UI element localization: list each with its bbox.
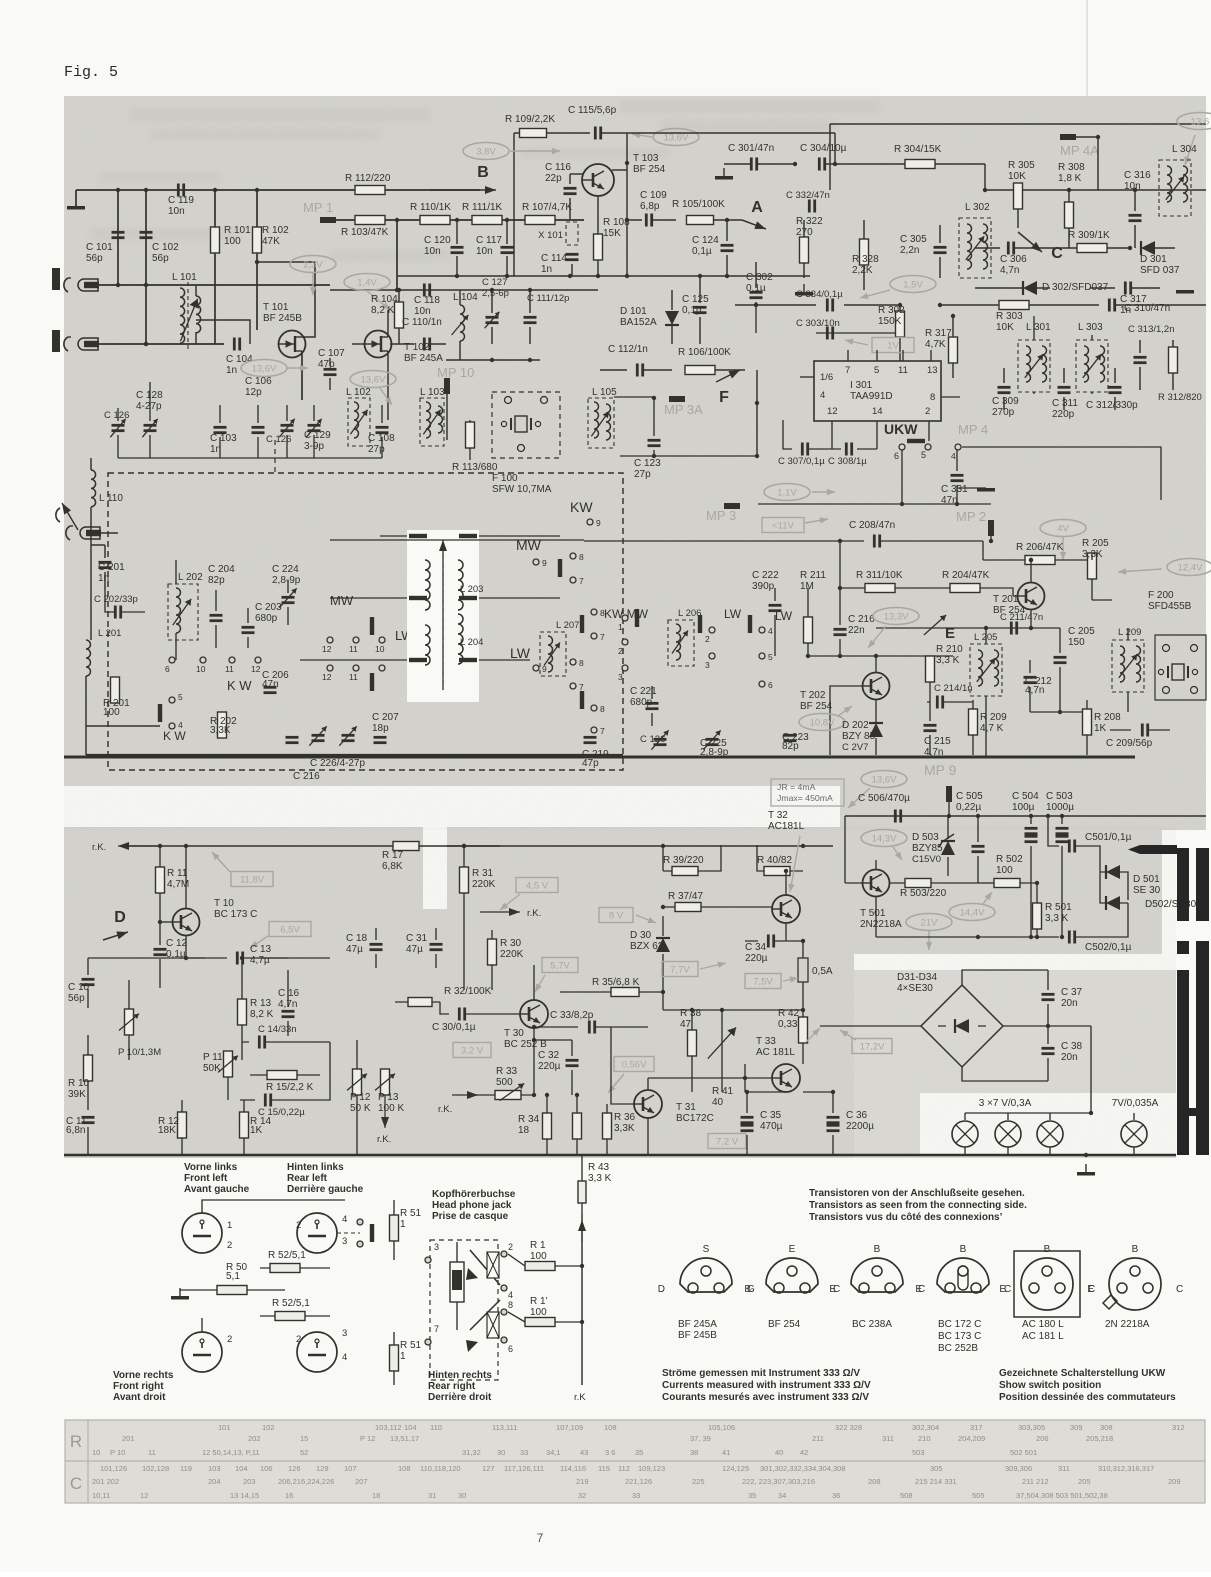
svg-text:C 106: C 106 <box>245 376 272 387</box>
inductor L207 <box>540 620 579 676</box>
svg-text:11: 11 <box>148 1448 156 1457</box>
svg-text:C 104: C 104 <box>226 354 253 365</box>
capacitor C202 <box>94 590 145 619</box>
svg-text:E: E <box>1087 1284 1094 1295</box>
svg-text:10: 10 <box>375 644 385 654</box>
svg-text:R 101: R 101 <box>224 225 251 236</box>
wire rf mid <box>446 358 540 362</box>
resistor R311 <box>838 570 950 593</box>
svg-text:SFD455B: SFD455B <box>1148 601 1192 612</box>
svg-text:8: 8 <box>930 392 935 403</box>
inductor L202 <box>168 560 203 660</box>
svg-text:R 103/47K: R 103/47K <box>341 227 389 238</box>
pot arrow R41 <box>708 1010 736 1108</box>
wire rk arrow2 <box>447 908 541 919</box>
svg-text:L 209: L 209 <box>1118 627 1141 638</box>
svg-text:MP 1: MP 1 <box>303 200 333 215</box>
capacitor C222 <box>752 570 782 656</box>
svg-text:T 32: T 32 <box>768 810 788 821</box>
svg-text:20n: 20n <box>1061 998 1078 1009</box>
svg-text:8,2 K: 8,2 K <box>250 1009 274 1020</box>
svg-text:215 214 331: 215 214 331 <box>915 1477 957 1486</box>
svg-text:BF 245B: BF 245B <box>678 1330 717 1341</box>
wire reg mid <box>978 882 994 884</box>
wire junction x146 <box>144 188 148 346</box>
wire t30 em <box>532 1038 572 1042</box>
svg-text:18: 18 <box>372 1491 380 1500</box>
svg-text:R 51: R 51 <box>400 1340 422 1351</box>
svg-text:C 202/33p: C 202/33p <box>94 594 138 605</box>
diode D101 <box>620 290 679 344</box>
capacitor C226 label <box>310 758 365 769</box>
ground main <box>1077 1164 1095 1176</box>
svg-text:220p: 220p <box>1052 409 1075 420</box>
pinout AC180 <box>999 1244 1095 1342</box>
svg-text:C 304/10µ: C 304/10µ <box>800 143 847 154</box>
svg-text:105,106: 105,106 <box>708 1423 735 1432</box>
svg-text:R 37/47: R 37/47 <box>668 891 703 902</box>
node C <box>1018 232 1063 262</box>
svg-text:BF 245A: BF 245A <box>404 353 443 364</box>
svg-text:L 301: L 301 <box>1026 322 1051 333</box>
capacitor C15 <box>240 1094 305 1119</box>
svg-text:322 328: 322 328 <box>835 1423 862 1432</box>
svg-text:47p: 47p <box>582 758 599 769</box>
svg-text:T 31: T 31 <box>676 1102 696 1113</box>
svg-text:C 126: C 126 <box>640 734 665 745</box>
wire mp9 top bus <box>845 814 1206 818</box>
svg-text:C 129: C 129 <box>304 430 331 441</box>
svg-text:34,1: 34,1 <box>546 1448 561 1457</box>
svg-text:5,7V: 5,7V <box>550 961 570 972</box>
wire rk arrow3 <box>438 1091 478 1115</box>
svg-text:20n: 20n <box>1061 1052 1078 1063</box>
fuse 0.5A <box>798 941 833 1014</box>
svg-text:303,305: 303,305 <box>1018 1423 1045 1432</box>
wire jack lower <box>99 342 224 346</box>
wire jack upper <box>99 283 330 287</box>
svg-text:4,7n: 4,7n <box>1025 685 1044 696</box>
svg-text:4: 4 <box>342 1214 347 1225</box>
capacitor C108 <box>368 405 395 458</box>
capacitor C10 <box>68 958 95 1008</box>
svg-text:10,8V: 10,8V <box>810 718 835 729</box>
speaker wire LS2 <box>337 1232 360 1234</box>
resistor R502 <box>994 854 1039 888</box>
svg-text:470µ: 470µ <box>760 1121 783 1132</box>
svg-text:D: D <box>114 909 126 926</box>
svg-text:12: 12 <box>322 672 332 682</box>
capacitor C205 <box>1030 626 1095 714</box>
svg-text:C 301/47n: C 301/47n <box>728 143 774 154</box>
capacitor C211 <box>1000 612 1043 635</box>
svg-text:C 34: C 34 <box>745 942 767 953</box>
svg-text:R 31: R 31 <box>472 868 494 879</box>
svg-text:C 331: C 331 <box>941 484 968 495</box>
svg-text:40: 40 <box>712 1097 724 1108</box>
svg-text:6,8K: 6,8K <box>382 861 403 872</box>
resistor R107 <box>522 202 572 225</box>
transistor T101 <box>263 302 306 358</box>
resistor R309 <box>1050 230 1132 253</box>
capacitor C32 <box>538 1040 579 1095</box>
svg-text:R 210: R 210 <box>936 644 963 655</box>
svg-text:L 110: L 110 <box>99 493 123 504</box>
wire lamp feed <box>1090 1026 1092 1113</box>
voltage 4.5V box <box>500 878 558 911</box>
ic pin14 <box>872 406 883 449</box>
svg-text:T 101: T 101 <box>263 302 289 313</box>
svg-text:15: 15 <box>300 1434 308 1443</box>
svg-text:10: 10 <box>196 664 206 674</box>
svg-text:R 102: R 102 <box>262 225 289 236</box>
reference table <box>65 1420 1205 1503</box>
svg-text:C 316: C 316 <box>1124 170 1151 181</box>
inductor L302 <box>959 202 991 278</box>
svg-text:13: 13 <box>927 365 938 376</box>
svg-text:R 109/2,2K: R 109/2,2K <box>505 114 555 125</box>
svg-text:7,2 V: 7,2 V <box>716 1137 739 1148</box>
svg-text:R 41: R 41 <box>712 1086 734 1097</box>
svg-text:LW: LW <box>510 645 531 661</box>
svg-text:E: E <box>915 1284 922 1295</box>
svg-text:5: 5 <box>874 365 879 376</box>
transistor T501 <box>845 860 902 937</box>
wire t31 col <box>648 1064 747 1092</box>
capacitor C16 <box>278 970 300 1036</box>
svg-text:Kopfhörerbuchse: Kopfhörerbuchse <box>432 1189 516 1200</box>
switch row mid contacts <box>618 609 639 682</box>
svg-text:108: 108 <box>398 1464 411 1473</box>
svg-text:D 503: D 503 <box>912 832 939 843</box>
svg-text:R 206/47K: R 206/47K <box>1016 542 1064 553</box>
svg-text:1000µ: 1000µ <box>1046 802 1074 813</box>
capacitor C317 <box>1090 282 1160 317</box>
capacitor C332 <box>786 190 830 213</box>
capacitor C37 <box>1042 970 1083 1026</box>
voltage 13.6 right <box>1177 113 1211 166</box>
ic pin7 <box>845 350 850 376</box>
svg-text:R 304/15K: R 304/15K <box>894 144 942 155</box>
trimmer C126 c <box>640 730 669 749</box>
capacitor C103 <box>210 405 237 458</box>
svg-text:3 ×7 V/0,3A: 3 ×7 V/0,3A <box>979 1098 1032 1109</box>
resistor R106 <box>678 347 745 375</box>
svg-text:42: 42 <box>800 1448 808 1457</box>
svg-text:1/6: 1/6 <box>820 372 833 383</box>
svg-text:C: C <box>70 1474 82 1493</box>
svg-text:220K: 220K <box>500 949 524 960</box>
svg-text:BZX 62: BZX 62 <box>630 941 664 952</box>
svg-text:32: 32 <box>578 1491 586 1500</box>
svg-text:C 10: C 10 <box>68 982 90 993</box>
svg-text:103: 103 <box>208 1464 221 1473</box>
svg-text:C 12: C 12 <box>166 938 188 949</box>
svg-text:MP 3: MP 3 <box>706 508 736 523</box>
resistor R35 <box>560 977 665 997</box>
svg-text:2: 2 <box>227 1240 232 1251</box>
svg-text:L 302: L 302 <box>965 202 990 213</box>
voltage 13.6V b <box>350 371 396 406</box>
node F <box>716 370 759 458</box>
svg-text:C 111/12p: C 111/12p <box>527 293 569 304</box>
lamp La1 <box>952 1121 978 1147</box>
potentiometer P13 <box>375 1069 404 1145</box>
svg-text:17,2V: 17,2V <box>860 1042 885 1053</box>
resistor R109 <box>505 114 590 138</box>
transistor T202 <box>800 656 890 755</box>
voltage 10.8V <box>799 706 852 731</box>
svg-text:110,118,120: 110,118,120 <box>420 1464 461 1473</box>
svg-text:43: 43 <box>580 1448 588 1457</box>
bus bar right 2 <box>1196 848 1209 921</box>
svg-text:4,7µ: 4,7µ <box>250 955 270 966</box>
capacitor C112 <box>600 344 672 377</box>
svg-text:C 118: C 118 <box>414 295 440 306</box>
svg-text:12: 12 <box>322 644 332 654</box>
svg-text:40: 40 <box>775 1448 783 1457</box>
capacitor C34 <box>745 935 805 965</box>
svg-text:37,504,308 503 501,502,38: 37,504,308 503 501,502,38 <box>1016 1491 1108 1500</box>
svg-text:1: 1 <box>618 622 623 632</box>
wire T10 base <box>158 920 172 924</box>
svg-text:2: 2 <box>296 1220 301 1231</box>
voltage 14.3V <box>861 830 907 861</box>
svg-text:2,2n: 2,2n <box>900 245 919 256</box>
svg-text:C 18: C 18 <box>346 933 368 944</box>
svg-text:Hinten rechts: Hinten rechts <box>428 1370 492 1381</box>
svg-text:R 105/100K: R 105/100K <box>672 199 725 210</box>
svg-text:L 103: L 103 <box>420 387 445 398</box>
resistor R52a <box>260 1250 330 1273</box>
transistor T201 <box>876 558 1060 630</box>
svg-text:R 42: R 42 <box>778 1008 800 1019</box>
ic pin5 <box>874 350 879 376</box>
svg-text:10: 10 <box>92 1448 100 1457</box>
switch kw top right <box>330 499 601 540</box>
svg-text:AC 180 L: AC 180 L <box>1022 1319 1064 1330</box>
ic pin16 <box>800 372 833 383</box>
svg-text:R 39/220: R 39/220 <box>663 855 704 866</box>
svg-text:Fig. 5: Fig. 5 <box>64 64 118 81</box>
wire top right up <box>830 124 1206 190</box>
svg-text:5,1: 5,1 <box>226 1271 240 1282</box>
wire vert x397 <box>396 220 398 290</box>
potentiometer P12 <box>347 1040 371 1155</box>
svg-text:LW: LW <box>724 607 742 621</box>
svg-text:r.K.: r.K. <box>92 842 106 853</box>
svg-text:0,56V: 0,56V <box>622 1060 647 1071</box>
voltage 3.8V <box>463 143 560 160</box>
svg-text:3,3K: 3,3K <box>614 1123 635 1134</box>
wire out top bus <box>447 844 833 848</box>
svg-text:312: 312 <box>1172 1423 1185 1432</box>
svg-text:10K: 10K <box>1008 171 1026 182</box>
trimmer C126 a <box>104 408 382 458</box>
svg-text:C 312/330p: C 312/330p <box>1086 400 1138 411</box>
capacitor C31 <box>406 928 443 968</box>
svg-text:101: 101 <box>218 1423 231 1432</box>
svg-text:C: C <box>1051 245 1063 262</box>
voltage 4V <box>1040 520 1086 561</box>
svg-text:16: 16 <box>285 1491 293 1500</box>
svg-text:8: 8 <box>600 704 605 714</box>
mw lw drive transformer <box>407 530 479 702</box>
wire osc left vert <box>513 133 515 276</box>
capacitor C307 <box>778 420 841 467</box>
svg-text:SFW 10,7MA: SFW 10,7MA <box>492 484 552 495</box>
svg-text:2: 2 <box>227 1334 232 1345</box>
resistor R110 <box>410 202 451 225</box>
svg-text:C 215: C 215 <box>924 736 951 747</box>
svg-text:C15V0: C15V0 <box>912 854 941 865</box>
svg-text:Ströme gemessen mit Instrument: Ströme gemessen mit Instrument 333 Ω/V <box>662 1368 860 1379</box>
svg-text:C 112/1n: C 112/1n <box>608 344 648 355</box>
wire trafo rows <box>300 536 560 660</box>
wire osc right vert <box>626 133 628 276</box>
voltage 21V <box>906 914 952 951</box>
wire c38 bottom <box>962 1067 1048 1081</box>
svg-text:3: 3 <box>705 660 710 670</box>
voltage 13.6V top <box>632 129 699 146</box>
wire T101 drain <box>255 260 315 337</box>
resistor R103 <box>341 216 389 239</box>
svg-text:E: E <box>999 1284 1006 1295</box>
svg-text:D 501: D 501 <box>1133 874 1160 885</box>
capacitor C11 <box>66 1116 95 1155</box>
svg-text:10n: 10n <box>424 246 441 257</box>
svg-text:1M: 1M <box>800 581 814 592</box>
svg-text:7,7V: 7,7V <box>670 965 690 976</box>
svg-text:P 11: P 11 <box>203 1052 223 1063</box>
svg-text:SFD 037: SFD 037 <box>1140 265 1180 276</box>
jack pins right <box>425 1242 513 1354</box>
transistor T30 <box>504 965 548 1095</box>
wire r1 junction <box>574 1214 586 1403</box>
svg-text:C 31: C 31 <box>406 933 428 944</box>
voltage 13.6V a <box>241 360 308 377</box>
lamp La2 <box>995 1121 1021 1147</box>
svg-text:0,33: 0,33 <box>778 1019 798 1030</box>
svg-text:C 504: C 504 <box>1012 791 1039 802</box>
svg-text:2N 2218A: 2N 2218A <box>1105 1319 1150 1330</box>
bus bar connector2 <box>1177 1108 1209 1116</box>
resistor R202 <box>210 712 237 738</box>
wire junction x118 <box>116 188 120 285</box>
tuner dashed box <box>108 440 623 770</box>
voltage 8V box <box>599 908 656 924</box>
svg-text:1,8 K: 1,8 K <box>1058 173 1082 184</box>
svg-text:508: 508 <box>900 1491 913 1500</box>
trimmer C225 <box>700 730 729 758</box>
svg-text:505: 505 <box>972 1491 985 1500</box>
resistor R208 <box>1083 700 1122 755</box>
svg-text:MP 3A: MP 3A <box>664 402 703 417</box>
voltage 12.4V <box>1118 559 1211 576</box>
svg-text:7: 7 <box>537 1531 544 1545</box>
svg-text:9: 9 <box>542 558 547 568</box>
resistor R1b <box>508 1296 582 1327</box>
svg-text:309: 309 <box>1070 1423 1083 1432</box>
svg-text:BF 254: BF 254 <box>800 701 833 712</box>
wire top right bus <box>737 188 1206 192</box>
resistor R503 <box>890 879 978 900</box>
svg-text:R 30: R 30 <box>500 938 522 949</box>
svg-text:R 503/220: R 503/220 <box>900 888 947 899</box>
svg-text:A: A <box>751 199 763 216</box>
label vorne links <box>184 1162 250 1195</box>
switch lw contacts <box>322 665 385 691</box>
capacitor C304 <box>793 143 860 190</box>
svg-text:Transistors as seen from the c: Transistors as seen from the connecting … <box>809 1200 1027 1211</box>
svg-text:18K: 18K <box>158 1125 176 1136</box>
switch kw contacts b <box>158 692 187 743</box>
svg-text:C 102: C 102 <box>152 242 179 253</box>
svg-text:R 35/6,8 K: R 35/6,8 K <box>592 977 640 988</box>
svg-text:R 501: R 501 <box>1045 902 1072 913</box>
resistor R322 <box>795 216 823 296</box>
svg-text:50 K: 50 K <box>350 1103 371 1114</box>
svg-text:r.K.: r.K. <box>377 1134 391 1145</box>
resistor R17 <box>382 842 419 873</box>
svg-text:R 110/1K: R 110/1K <box>410 202 451 213</box>
drive coil labels <box>460 584 483 648</box>
svg-text:3: 3 <box>434 1242 439 1252</box>
svg-text:R 10: R 10 <box>68 1078 90 1089</box>
svg-text:C 36: C 36 <box>846 1110 868 1121</box>
wire bridge top <box>962 970 1048 985</box>
svg-text:35: 35 <box>748 1491 756 1500</box>
label kopfhoerer <box>432 1189 516 1222</box>
svg-text:D 101: D 101 <box>620 306 647 317</box>
wire y133 right <box>627 133 837 166</box>
svg-text:112: 112 <box>618 1464 630 1473</box>
page number <box>537 1531 544 1545</box>
svg-text:R 322: R 322 <box>796 216 823 227</box>
bus bar right 1c <box>1177 970 1189 1155</box>
resistor R111 <box>462 202 503 225</box>
resistor R312 <box>1158 340 1202 403</box>
svg-text:309,306: 309,306 <box>1005 1464 1032 1473</box>
capacitor C12 <box>154 922 188 988</box>
switch mw contacts <box>322 617 385 654</box>
resistor R37 <box>661 891 772 912</box>
capacitor C14 <box>242 1024 297 1049</box>
svg-text:4-27p: 4-27p <box>136 401 162 412</box>
svg-text:203: 203 <box>243 1477 256 1486</box>
svg-text:3,8V: 3,8V <box>476 147 496 158</box>
svg-text:4,5 V: 4,5 V <box>526 881 549 892</box>
contact bars LS2 <box>357 1219 374 1247</box>
svg-text:C 313/1,2n: C 313/1,2n <box>1128 324 1174 335</box>
svg-text:R 32/100K: R 32/100K <box>444 986 492 997</box>
svg-text:150K: 150K <box>878 316 902 327</box>
svg-text:B: B <box>960 1244 967 1255</box>
svg-text:Avant droit: Avant droit <box>113 1392 166 1403</box>
wire T102 vert <box>387 310 389 420</box>
capacitor C120 <box>424 220 464 276</box>
resistor R13 <box>238 956 274 1060</box>
svg-text:C 214/1n: C 214/1n <box>934 683 973 694</box>
pinout BC172 <box>915 1244 1011 1354</box>
svg-text:B: B <box>477 164 489 181</box>
resistor R201 <box>103 677 130 718</box>
wire t33 em <box>747 1043 803 1092</box>
svg-text:R 11: R 11 <box>167 868 188 879</box>
svg-text:1,5V: 1,5V <box>903 280 923 291</box>
wire t31 base <box>611 1027 634 1104</box>
svg-text:12: 12 <box>251 664 261 674</box>
